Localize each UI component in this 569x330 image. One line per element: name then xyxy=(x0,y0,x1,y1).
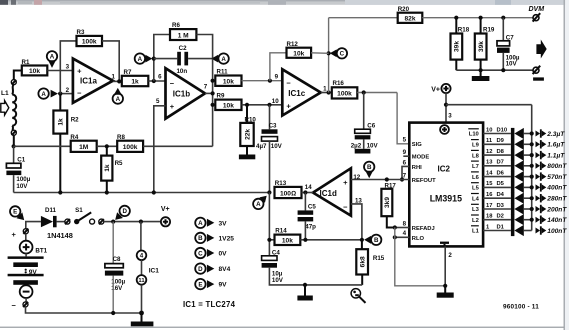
svg-text:L9: L9 xyxy=(472,143,480,149)
svg-text:10V: 10V xyxy=(367,142,379,149)
svg-text:960100 - 11: 960100 - 11 xyxy=(503,304,539,311)
svg-text:−: − xyxy=(343,202,348,211)
svg-text:10V: 10V xyxy=(16,183,28,190)
resistor R9 xyxy=(215,93,241,110)
RHI strap to REFOUT xyxy=(402,166,409,179)
svg-text:10: 10 xyxy=(272,98,279,105)
svg-text:2µ2: 2µ2 xyxy=(351,142,362,149)
svg-text:0V: 0V xyxy=(219,251,228,258)
svg-text:BT1: BT1 xyxy=(35,248,47,255)
resistor R6 xyxy=(170,22,213,58)
scan artifact: right page edge xyxy=(564,0,566,330)
svg-text:1: 1 xyxy=(323,86,327,93)
svg-text:IC1: IC1 xyxy=(149,267,160,274)
IC2 LM3915 xyxy=(409,123,483,247)
legend node B = 1V25 xyxy=(195,233,234,243)
svg-text:8: 8 xyxy=(403,220,407,227)
svg-text:+: + xyxy=(286,102,291,111)
svg-text:22k: 22k xyxy=(244,129,251,140)
svg-text:D9: D9 xyxy=(497,138,505,144)
legend node E = 9V xyxy=(195,279,227,289)
IC1c output vertical to R20 xyxy=(328,18,330,93)
svg-text:D11: D11 xyxy=(45,207,57,214)
svg-text:L10: L10 xyxy=(469,132,479,138)
svg-text:D: D xyxy=(122,208,127,215)
diode D11 1N4148 xyxy=(41,207,73,240)
svg-text:−: − xyxy=(12,301,17,310)
svg-text:A: A xyxy=(256,201,261,208)
svg-text:+: + xyxy=(343,178,348,187)
svg-text:10V: 10V xyxy=(272,277,284,284)
svg-text:C: C xyxy=(340,51,345,58)
wire pin2 xyxy=(58,93,73,95)
svg-text:R4: R4 xyxy=(70,134,78,141)
svg-text:100k: 100k xyxy=(337,91,352,98)
resistor R19 xyxy=(475,18,495,70)
IC1 supply pins xyxy=(137,222,160,316)
LED D1 output L1 pin 1 (100nT) xyxy=(471,224,567,236)
svg-text:14: 14 xyxy=(305,184,312,191)
svg-text:R1: R1 xyxy=(22,59,30,66)
svg-text:R19: R19 xyxy=(483,27,495,34)
svg-text:D2: D2 xyxy=(497,214,504,220)
svg-text:L2: L2 xyxy=(472,218,479,224)
svg-text:C5: C5 xyxy=(308,204,316,211)
wire battery + to D11 xyxy=(26,222,41,229)
wire IC1d pin12 to REFOUT xyxy=(351,179,409,181)
capacitor C5 xyxy=(298,193,317,240)
svg-text:D7: D7 xyxy=(497,160,504,166)
svg-text:C1: C1 xyxy=(17,157,25,164)
LED anode rail xyxy=(531,105,533,231)
wire D node to V+ xyxy=(113,221,161,223)
svg-text:IC1d: IC1d xyxy=(320,189,337,198)
svg-text:C7: C7 xyxy=(506,35,514,42)
svg-text:R18: R18 xyxy=(458,27,470,34)
resistor R16 xyxy=(332,80,358,99)
svg-text:D4: D4 xyxy=(497,192,505,198)
svg-text:A: A xyxy=(198,220,203,227)
svg-text:L6: L6 xyxy=(472,175,480,181)
op-amp IC1a xyxy=(66,59,116,103)
svg-text:+: + xyxy=(12,230,17,239)
DVM bottom terminal xyxy=(533,66,544,81)
svg-text:1V25: 1V25 xyxy=(219,235,235,242)
svg-text:REFADJ: REFADJ xyxy=(412,226,435,232)
DVM bottom wire xyxy=(456,69,533,71)
svg-text:10k: 10k xyxy=(223,78,234,85)
capacitor C7 xyxy=(497,18,520,70)
svg-text:C8: C8 xyxy=(113,256,121,263)
svg-text:6k8: 6k8 xyxy=(360,256,367,267)
resistor R11 xyxy=(215,69,241,86)
svg-text:+: + xyxy=(170,102,175,111)
node A marker left of C2 xyxy=(135,53,153,63)
svg-text:−: − xyxy=(286,79,291,88)
wire R8 to IC1b output vertical xyxy=(143,145,213,147)
svg-text:10: 10 xyxy=(486,127,492,133)
svg-text:B: B xyxy=(374,237,379,244)
svg-text:D: D xyxy=(198,266,203,273)
svg-text:5: 5 xyxy=(403,137,407,144)
svg-text:R13: R13 xyxy=(275,180,287,187)
scan artifact: bottom separator line xyxy=(0,327,564,328)
svg-text:400nT: 400nT xyxy=(546,185,567,192)
node B marker at pin13 node xyxy=(364,235,381,245)
svg-text:6: 6 xyxy=(158,74,162,81)
node A marker at pin2 xyxy=(38,88,58,98)
svg-text:1k: 1k xyxy=(58,118,65,126)
svg-text:R15: R15 xyxy=(373,255,385,262)
wire R1 to IC1a pin3 xyxy=(47,70,73,72)
adjustment point symbol (magnifier) xyxy=(351,289,365,303)
inductor L1 pickup coil xyxy=(1,71,22,147)
svg-text:A: A xyxy=(138,56,143,63)
svg-text:R14: R14 xyxy=(275,228,287,235)
node D marker xyxy=(115,206,130,220)
svg-text:15: 15 xyxy=(486,181,493,187)
wire R11 to IC1c pin9 xyxy=(242,80,283,82)
ground below IC1 pin 11 xyxy=(131,313,154,326)
svg-text:3: 3 xyxy=(66,63,70,70)
LED D5 output L5 pin 15 (400nT) xyxy=(471,181,567,193)
IC1b feedback branch vertical xyxy=(154,35,170,82)
svg-text:RLO: RLO xyxy=(412,236,425,242)
capacitor C6 xyxy=(351,93,379,154)
svg-text:A: A xyxy=(221,56,226,63)
IC2 left pin labels xyxy=(403,137,437,242)
REFADJ / RLO wiring xyxy=(395,227,410,229)
svg-text:L5: L5 xyxy=(472,186,480,192)
svg-text:+: + xyxy=(77,67,82,76)
svg-text:R20: R20 xyxy=(398,6,410,13)
svg-text:R6: R6 xyxy=(172,22,180,29)
node A rail (3V) horizontal xyxy=(14,192,270,194)
V+ supply terminal xyxy=(431,84,450,94)
svg-text:E: E xyxy=(198,281,202,288)
node E marker xyxy=(10,206,24,220)
svg-text:9V: 9V xyxy=(219,282,228,289)
svg-text:10n: 10n xyxy=(176,68,187,75)
wire IC1c output xyxy=(321,92,332,94)
svg-text:1k: 1k xyxy=(104,164,111,172)
svg-text:2: 2 xyxy=(448,252,452,259)
svg-text:570nT: 570nT xyxy=(547,174,567,181)
svg-text:MODE: MODE xyxy=(412,155,430,161)
wire IC1d pin13 xyxy=(351,204,362,240)
svg-text:B: B xyxy=(198,235,203,242)
svg-text:8V4: 8V4 xyxy=(219,266,231,273)
node A marker right of R6/C2 xyxy=(211,53,229,63)
wire V+ to IC2 pin3 and LED rail xyxy=(445,93,447,123)
svg-text:−: − xyxy=(170,79,175,88)
svg-text:SIG: SIG xyxy=(412,142,422,148)
node A marker below IC1a output xyxy=(113,88,123,104)
svg-text:D6: D6 xyxy=(497,170,505,176)
svg-text:39k: 39k xyxy=(478,41,485,52)
svg-text:C6: C6 xyxy=(367,123,375,130)
svg-text:1k: 1k xyxy=(131,79,139,86)
svg-text:A: A xyxy=(116,96,121,103)
op-amp IC1b xyxy=(156,68,208,118)
svg-text:IC1b: IC1b xyxy=(173,89,190,98)
svg-text:1.1µT: 1.1µT xyxy=(547,152,565,159)
svg-text:11: 11 xyxy=(486,138,493,144)
IC1b output net vertical xyxy=(212,59,214,147)
wire R9 to IC1c pin10 xyxy=(242,104,283,106)
svg-text:11: 11 xyxy=(138,278,145,284)
wire to IC2 pin5 SIG xyxy=(397,93,409,144)
node A marker above pin3 xyxy=(47,51,57,68)
resistor R18 xyxy=(451,18,470,70)
resistor R10 xyxy=(240,105,256,146)
svg-text:4: 4 xyxy=(140,253,144,260)
svg-text:A: A xyxy=(41,91,46,98)
ground below R18/R19 xyxy=(472,70,490,81)
resistor R8 xyxy=(117,134,143,152)
svg-text:82k: 82k xyxy=(404,16,415,23)
svg-text:800nT: 800nT xyxy=(547,163,567,170)
svg-text:10k: 10k xyxy=(223,102,234,109)
svg-text:5: 5 xyxy=(156,98,160,105)
LED D9 output L9 pin 11 (1.6uT) xyxy=(471,138,565,150)
resistor R20 xyxy=(329,6,533,23)
svg-text:12: 12 xyxy=(486,149,492,155)
svg-text:140nT: 140nT xyxy=(547,217,567,224)
bias rail from L1 to R4 xyxy=(14,145,71,147)
resistor R1 xyxy=(22,59,48,76)
capacitor C4 xyxy=(262,249,363,285)
switch S1 xyxy=(65,207,113,224)
svg-text:3: 3 xyxy=(448,112,452,119)
svg-text:C3: C3 xyxy=(269,122,277,129)
svg-text:IC2: IC2 xyxy=(438,164,451,173)
svg-text:V+: V+ xyxy=(431,87,440,94)
svg-text:1M: 1M xyxy=(79,144,89,151)
capacitor C8 xyxy=(105,222,126,316)
svg-text:B: B xyxy=(367,164,372,171)
legend node C = 0V xyxy=(195,248,227,258)
LED D6 output L6 pin 14 (570nT) xyxy=(471,170,567,182)
svg-text:LM3915: LM3915 xyxy=(430,194,462,204)
junction dots on DVM wire xyxy=(454,16,458,20)
svg-text:13: 13 xyxy=(486,160,493,166)
svg-text:10k: 10k xyxy=(282,238,293,245)
resistor R14 xyxy=(269,228,362,245)
svg-text:R16: R16 xyxy=(333,80,345,87)
battery BT1 9V xyxy=(8,229,142,313)
svg-text:L4: L4 xyxy=(472,196,480,202)
ground on bottom analog rail xyxy=(297,283,312,301)
capacitor C1 xyxy=(6,144,30,192)
V+ terminal (battery side) xyxy=(161,206,170,227)
svg-text:18: 18 xyxy=(486,214,493,220)
IC2 pin2 ground xyxy=(437,246,454,297)
op-amp IC1c xyxy=(272,69,327,115)
capacitor C2 xyxy=(154,45,213,75)
svg-text:E: E xyxy=(13,209,17,216)
resistor R7 xyxy=(122,69,149,86)
svg-text:R17: R17 xyxy=(385,183,397,190)
svg-text:D1: D1 xyxy=(497,224,505,230)
svg-text:L1: L1 xyxy=(1,90,9,97)
svg-text:100Ω: 100Ω xyxy=(280,190,296,197)
svg-text:C2: C2 xyxy=(179,45,187,52)
resistor R5 xyxy=(101,146,123,192)
svg-text:L1: L1 xyxy=(472,229,480,235)
svg-text:D3: D3 xyxy=(497,203,505,209)
node A marker at rail end xyxy=(253,196,267,209)
DVM top terminal xyxy=(533,13,541,21)
svg-text:10V: 10V xyxy=(506,60,518,67)
svg-text:14: 14 xyxy=(486,170,493,176)
svg-text:REFOUT: REFOUT xyxy=(412,178,436,184)
svg-text:200nT: 200nT xyxy=(546,206,567,213)
LED D7 output L7 pin 13 (800nT) xyxy=(471,160,567,172)
op-amp IC1d (mirrored) xyxy=(305,168,363,215)
ground below R10 xyxy=(239,146,255,159)
svg-text:C4: C4 xyxy=(272,249,280,256)
svg-text:3V: 3V xyxy=(219,220,228,227)
resistor R4 xyxy=(70,134,96,152)
svg-text:16: 16 xyxy=(486,192,493,198)
svg-text:V+: V+ xyxy=(161,206,170,213)
svg-text:R12: R12 xyxy=(287,41,299,48)
resistor R15 xyxy=(356,240,385,285)
LED D10 output L10 pin 10 (2.3uT) xyxy=(468,127,565,139)
svg-text:10k: 10k xyxy=(293,51,304,58)
svg-text:S1: S1 xyxy=(75,207,83,214)
svg-text:100µ: 100µ xyxy=(16,176,30,183)
legend node A = 3V xyxy=(195,218,227,228)
wire R16 to SIG xyxy=(357,92,397,94)
svg-text:L8: L8 xyxy=(472,153,480,159)
svg-text:47p: 47p xyxy=(305,224,316,231)
svg-text:9: 9 xyxy=(403,149,407,156)
svg-text:R2: R2 xyxy=(71,116,79,123)
svg-text:6: 6 xyxy=(403,159,407,166)
svg-text:L7: L7 xyxy=(472,164,479,170)
svg-text:R3: R3 xyxy=(77,29,85,36)
svg-text:R8: R8 xyxy=(117,134,125,141)
capacitor C3 xyxy=(256,105,283,193)
svg-text:280nT: 280nT xyxy=(546,196,567,203)
IC1a output node xyxy=(113,80,122,82)
svg-text:D5: D5 xyxy=(497,181,505,187)
LED D3 output L3 pin 17 (200nT) xyxy=(471,203,567,215)
svg-text:100k: 100k xyxy=(123,144,138,151)
svg-text:1N4148: 1N4148 xyxy=(47,231,73,240)
svg-text:4: 4 xyxy=(403,230,407,237)
svg-text:C: C xyxy=(198,250,203,257)
svg-text:10V: 10V xyxy=(271,143,283,150)
svg-text:1.6µT: 1.6µT xyxy=(547,142,565,149)
svg-text:R10: R10 xyxy=(245,116,257,123)
LED D8 output L8 pin 12 (1.1uT) xyxy=(471,149,565,161)
wire IC1b pin5 down to node A rail xyxy=(154,106,166,193)
svg-text:RHI: RHI xyxy=(412,165,422,171)
svg-text:R9: R9 xyxy=(217,93,225,100)
svg-text:4µ7: 4µ7 xyxy=(256,143,267,150)
svg-text:7: 7 xyxy=(204,84,208,91)
svg-text:IC1c: IC1c xyxy=(288,89,305,98)
svg-text:R5: R5 xyxy=(115,160,123,167)
wire R13 to IC1d output xyxy=(302,192,314,194)
resistor R13 xyxy=(275,180,302,198)
LED D2 output L2 pin 18 (140nT) xyxy=(471,214,567,226)
scan artifact: top gray band xyxy=(0,0,569,5)
svg-text:3k9: 3k9 xyxy=(384,197,391,208)
svg-text:D10: D10 xyxy=(497,127,508,133)
resistor R2 xyxy=(53,94,79,193)
svg-text:R11: R11 xyxy=(217,69,229,76)
svg-text:A: A xyxy=(50,54,55,61)
LED D4 output L4 pin 16 (280nT) xyxy=(471,192,567,204)
svg-text:IC1a: IC1a xyxy=(80,77,97,86)
wire R4 to R8 xyxy=(97,145,118,147)
node A down-leg to C4 xyxy=(268,193,270,256)
svg-text:R7: R7 xyxy=(124,69,132,76)
resistor R17 xyxy=(381,183,396,228)
svg-text:IC1 = TLC274: IC1 = TLC274 xyxy=(183,300,236,309)
wire R7 to IC1b pin6 xyxy=(148,80,165,82)
svg-text:DVM: DVM xyxy=(529,6,545,13)
svg-text:2: 2 xyxy=(66,87,70,94)
node C marker xyxy=(330,48,347,58)
svg-text:2.3µT: 2.3µT xyxy=(546,131,565,138)
resistor R3 feedback xyxy=(60,29,119,94)
svg-text:L3: L3 xyxy=(472,207,480,213)
svg-text:1: 1 xyxy=(111,73,115,80)
node B marker above pin12 xyxy=(364,162,374,179)
arrow to DVM xyxy=(536,40,546,59)
svg-text:10k: 10k xyxy=(29,68,40,75)
svg-text:100k: 100k xyxy=(82,39,97,46)
svg-text:−: − xyxy=(77,88,82,97)
svg-text:39k: 39k xyxy=(454,41,461,52)
legend node D = 8V4 xyxy=(195,263,230,273)
svg-text:17: 17 xyxy=(486,203,492,209)
resistor R12 feedback xyxy=(270,41,329,81)
svg-text:100nT: 100nT xyxy=(547,228,567,235)
junction pin2 xyxy=(58,92,62,96)
svg-text:1 M: 1 M xyxy=(178,32,189,39)
svg-text:D8: D8 xyxy=(497,149,505,155)
svg-text:9: 9 xyxy=(275,74,279,81)
